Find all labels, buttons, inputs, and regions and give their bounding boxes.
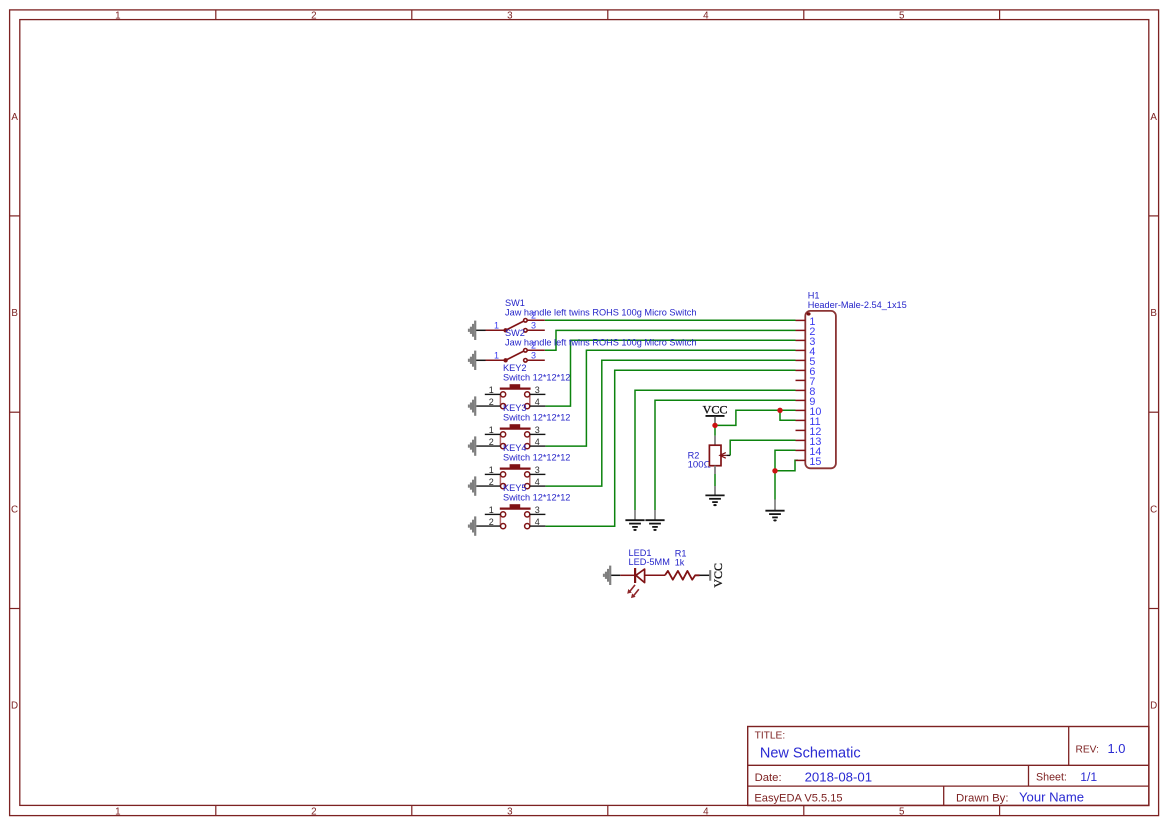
svg-text:KEY3: KEY3 [503, 403, 527, 413]
svg-text:3: 3 [535, 425, 540, 435]
tactile switch KEY5 [468, 483, 571, 536]
svg-text:Your Name: Your Name [1019, 790, 1084, 805]
svg-text:2018-08-01: 2018-08-01 [805, 769, 872, 784]
svg-text:KEY5: KEY5 [503, 483, 527, 493]
svg-text:1: 1 [489, 465, 494, 475]
svg-text:New Schematic: New Schematic [760, 745, 861, 761]
svg-text:KEY2: KEY2 [503, 363, 527, 373]
svg-text:SW1: SW1 [505, 298, 525, 308]
svg-text:1: 1 [489, 385, 494, 395]
svg-text:VCC: VCC [703, 403, 728, 417]
svg-text:A: A [11, 112, 18, 123]
svg-text:Switch 12*12*12: Switch 12*12*12 [503, 452, 570, 462]
wire gray R2 to ground [714, 486, 716, 495]
svg-text:Sheet:: Sheet: [1036, 772, 1067, 784]
ground pin8 [625, 520, 644, 531]
frame row ticks right [1149, 216, 1159, 609]
power flag VCC (rotated) [710, 563, 725, 588]
svg-text:4: 4 [535, 477, 540, 487]
svg-text:B: B [1150, 308, 1157, 319]
svg-text:1.0: 1.0 [1108, 741, 1126, 756]
micro switch SW2 [468, 328, 697, 370]
resistor R2 (trimmer) [709, 436, 730, 474]
connector H1 labels [808, 291, 907, 311]
svg-text:C: C [1150, 504, 1157, 515]
svg-text:Drawn By:: Drawn By: [956, 792, 1009, 804]
H1 pin 1 stub [796, 319, 806, 321]
svg-text:LED-5MM: LED-5MM [629, 557, 670, 567]
H1 pin 4 stub [796, 349, 806, 351]
H1 pin 13 stub [796, 439, 806, 441]
svg-text:3: 3 [531, 321, 536, 331]
svg-text:KEY4: KEY4 [503, 443, 527, 453]
wire KEY3 pin4 to H1 pin4 [545, 350, 795, 446]
svg-text:5: 5 [899, 11, 905, 22]
svg-text:VCC: VCC [711, 563, 725, 588]
LED1 anode lead [645, 574, 665, 576]
LED flag stem [611, 574, 620, 576]
H1 pin 2 stub [796, 329, 806, 331]
wire H1 pin8 to ground [635, 390, 796, 510]
svg-text:Switch 12*12*12: Switch 12*12*12 [503, 372, 570, 382]
svg-text:1: 1 [115, 11, 120, 22]
wire R2 wiper to H1 pin13 [730, 440, 795, 455]
svg-text:4: 4 [535, 437, 540, 447]
title block [748, 727, 1149, 806]
svg-text:REV:: REV: [1076, 745, 1099, 756]
LED1 labels [629, 548, 670, 567]
H1 pin 6 stub [796, 369, 806, 371]
tactile switch KEY3 [468, 403, 571, 456]
frame column numbers bottom [115, 807, 905, 818]
junction dot pin14/15/gnd [772, 468, 777, 473]
wire branch to H1 pin15 [775, 460, 798, 471]
wire SW2 pin2 to H1 pin2 [545, 330, 796, 350]
H1 pin-1 marker dot [807, 312, 811, 315]
tactile switch KEY4 [468, 443, 571, 496]
H1 pin 15 stub [796, 459, 806, 461]
svg-text:3: 3 [531, 351, 536, 361]
svg-text:4: 4 [703, 11, 709, 22]
svg-text:1: 1 [489, 505, 494, 515]
wire SW1 pin2 to H1 pin1 [545, 319, 796, 321]
H1 pin 10 stub [796, 409, 806, 411]
title block texts [754, 730, 1125, 804]
ground pin9 [645, 520, 664, 531]
svg-text:C: C [11, 504, 18, 515]
svg-text:Date:: Date: [755, 772, 782, 784]
svg-text:4: 4 [535, 397, 540, 407]
svg-text:4: 4 [703, 807, 709, 818]
H1 pin 5 stub [796, 359, 806, 361]
ground below R2 [705, 495, 724, 506]
svg-text:3: 3 [507, 11, 513, 22]
LED1 diode [635, 568, 645, 583]
wire R2 bottom [714, 474, 716, 486]
svg-text:H1: H1 [808, 291, 820, 301]
svg-text:EasyEDA V5.5.15: EasyEDA V5.5.15 [754, 793, 842, 805]
H1 pin 11 stub [796, 419, 806, 421]
frame row letters right [1150, 112, 1157, 712]
svg-text:15: 15 [809, 456, 821, 468]
ground pin14/15 [765, 511, 784, 522]
svg-text:TITLE:: TITLE: [755, 730, 786, 741]
LED1 emission arrows [627, 585, 639, 598]
micro switch SW1 [468, 298, 697, 340]
svg-text:4: 4 [535, 517, 540, 527]
H1 pin 7 stub [796, 379, 806, 381]
VCC flag stem (rotated) [700, 574, 711, 576]
wire H1 pin14 down [775, 450, 796, 471]
svg-text:2: 2 [489, 397, 494, 407]
H1 pin 9 stub [796, 399, 806, 401]
wire KEY5 pin4 to H1 pin6 [545, 370, 795, 526]
wire VCC stem to R2 [714, 425, 716, 435]
frame column ticks bottom [216, 805, 1000, 815]
tactile switch KEY2 [468, 363, 571, 416]
ground flag at LED cathode [603, 566, 611, 585]
R1 labels [675, 549, 687, 568]
resistor R2 labels [688, 450, 711, 470]
svg-text:100Ω: 100Ω [688, 459, 711, 470]
ground stem pin9 [654, 510, 656, 520]
svg-text:2: 2 [489, 477, 494, 487]
wire H1 pin9 to ground [655, 400, 796, 510]
svg-text:5: 5 [899, 807, 905, 818]
ground stem pin14/15 [774, 500, 776, 511]
svg-text:Header-Male-2.54_1x15: Header-Male-2.54_1x15 [808, 300, 907, 310]
svg-text:3: 3 [535, 465, 540, 475]
junction dot VCC [712, 423, 717, 428]
svg-text:A: A [1150, 112, 1157, 123]
svg-text:2: 2 [531, 311, 536, 321]
frame row ticks left [10, 216, 20, 609]
ground stem pin8 [634, 510, 636, 520]
svg-text:2: 2 [311, 11, 316, 22]
H1 pin 3 stub [796, 339, 806, 341]
resistor R1 [665, 571, 700, 580]
svg-text:1: 1 [489, 425, 494, 435]
svg-text:2: 2 [531, 341, 536, 351]
svg-text:3: 3 [535, 505, 540, 515]
wire KEY4 pin4 to H1 pin5 [545, 360, 795, 486]
power flag VCC [703, 403, 728, 423]
H1 pin 12 stub [796, 429, 806, 431]
frame row letters left [11, 112, 18, 712]
svg-text:2: 2 [311, 807, 316, 818]
frame column ticks top [216, 10, 1000, 20]
svg-text:SW2: SW2 [505, 328, 525, 338]
svg-text:1/1: 1/1 [1080, 770, 1097, 784]
H1 pin 14 stub [796, 449, 806, 451]
wire junction to ground [774, 471, 776, 500]
svg-text:1: 1 [494, 320, 499, 330]
svg-text:2: 2 [489, 437, 494, 447]
svg-text:1k: 1k [675, 558, 685, 568]
frame column numbers top [115, 11, 905, 22]
svg-text:1: 1 [115, 807, 120, 818]
connector H1 body [805, 311, 836, 468]
svg-text:B: B [11, 308, 18, 319]
junction dot pin10/11 [777, 408, 782, 413]
wire KEY2 pin4 to H1 pin3 [545, 340, 795, 406]
svg-text:Switch 12*12*12: Switch 12*12*12 [503, 492, 570, 502]
svg-text:2: 2 [489, 517, 494, 527]
H1 pin 8 stub [796, 389, 806, 391]
svg-text:D: D [1150, 701, 1157, 712]
svg-text:1: 1 [494, 350, 499, 360]
wire VCC to H1 pin10 [715, 410, 796, 425]
svg-text:D: D [11, 701, 18, 712]
svg-text:3: 3 [507, 807, 513, 818]
svg-text:3: 3 [535, 385, 540, 395]
LED1 cathode lead [620, 574, 634, 576]
wire branch to H1 pin11 [780, 410, 796, 420]
svg-text:Switch 12*12*12: Switch 12*12*12 [503, 412, 570, 422]
